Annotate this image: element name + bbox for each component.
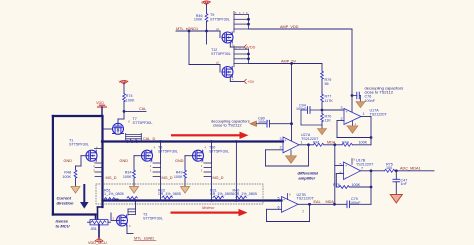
svg-text:STT5PF30L: STT5PF30L [209,150,229,154]
svg-text:100K: 100K [126,98,135,102]
wire T1 gate [81,155,86,157]
svg-text:2: 2 [280,146,282,150]
power symbol VDD above R46 [203,1,211,5]
ground [356,102,365,108]
op-amp U17B [344,162,361,180]
svg-text:p2: p2 [216,61,219,65]
capacitor C47 [395,171,397,180]
svg-text:1_1%_0805: 1_1%_0805 [104,192,124,196]
svg-text:VDD_MCU: VDD_MCU [88,241,107,245]
svg-text:EAL: EAL [314,200,321,204]
junction T3 drain rail B [134,199,137,202]
wire output [298,203,347,205]
svg-text:CR_1%_0805: CR_1%_0805 [158,192,181,196]
svg-text:TS21220T: TS21220T [356,162,374,166]
junction U27A output [307,143,310,146]
T7 pin ladder [126,133,142,141]
wire rail B [103,199,282,201]
op-amp U17A [344,109,361,125]
arrow current path top [171,132,249,139]
svg-text:7: 7 [361,167,363,171]
dashed box [96,184,263,204]
junction gate node [188,30,191,33]
svg-text:STT5PF30L: STT5PF30L [143,217,163,221]
ground [390,195,402,203]
wire gate net [176,30,220,32]
svg-text:5: 5 [278,197,280,201]
svg-text:100nF: 100nF [258,120,269,124]
svg-text:VDD: VDD [96,101,104,105]
ground [129,187,138,194]
wire - input [336,173,343,175]
wire to U17B+ [370,138,372,145]
junction CAL node [123,110,126,113]
junction MDA node [333,143,336,146]
svg-text:MTL_sGND: MTL_sGND [134,236,154,240]
svg-text:STT5PF30L: STT5PF30L [69,143,89,147]
svg-text:GND: GND [175,159,184,163]
svg-text:MG_D: MG_D [213,176,224,180]
svg-text:117K: 117K [325,99,334,103]
wire T3 gate [111,220,117,222]
resistor R34 [133,170,136,178]
svg-text:TS21220T: TS21220T [370,113,388,117]
svg-text:p2: p2 [216,27,219,31]
svg-text:100K: 100K [194,18,203,22]
transistor T12 [222,67,233,78]
svg-text:10R_1%_0805: 10R_1%_0805 [233,192,257,196]
junction T7 pins on rail [126,140,129,143]
wire output [299,144,313,146]
svg-text:1: 1 [363,112,365,116]
junction divider node [321,109,324,112]
svg-text:+: + [283,198,285,202]
junction T10 source rail B [210,199,213,202]
wire sense drop [235,142,237,201]
ground U17A V- [352,121,354,126]
svg-text:56: 56 [325,82,329,86]
power arrow left [250,121,257,126]
junction ADC output node [395,169,398,172]
junction C79 tap [333,203,336,206]
svg-text:Moteur: Moteur [202,205,215,210]
transistor T9 [222,32,233,43]
wire output [361,116,371,118]
svg-text:3: 3 [341,106,343,110]
svg-text:STT5PF30L: STT5PF30L [211,52,231,56]
svg-text:11K: 11K [325,119,332,123]
junction T8 drain on rail [159,140,162,143]
wire T10 gate [185,155,193,157]
svg-text:+: + [345,164,347,168]
junction U17A feedback [370,136,373,139]
wire to VDD_MCU [98,225,100,237]
junction R76 feedback node [370,186,373,189]
svg-text:to MCU: to MCU [56,223,70,228]
wire AMP_5V rail [249,63,323,65]
svg-text:VDD: VDD [119,80,127,84]
svg-text:+: + [346,110,348,114]
power symbol VDD main [98,105,107,107]
junction U27B output [308,203,311,206]
wire bus top [53,115,102,117]
T8 pin ladder [153,163,161,177]
svg-text:100nF: 100nF [365,99,376,103]
svg-text:AMP_VDD: AMP_VDD [280,25,299,29]
wire R46 to gate node [206,22,208,32]
ground V- [290,150,292,156]
svg-text:VDD: VDD [201,1,209,5]
svg-text:close to TS2112: close to TS2112 [365,89,394,94]
wire VDD stem [101,107,103,116]
wire U27A supply drop [291,64,293,141]
resistor R48 [75,166,77,170]
junction U17B output [370,169,373,172]
svg-text:JB1: JB1 [91,227,97,231]
svg-text:MDA: MDA [326,200,335,204]
power symbol VDD (cal) [120,80,128,84]
resistor R46 [205,14,208,22]
svg-text:CR_1%_0805: CR_1%_0805 [210,192,233,196]
svg-text:AMP_5V: AMP_5V [281,59,296,63]
svg-text:MG_D: MG_D [106,176,117,180]
jumper JB1 [90,220,108,225]
resistor R74 [123,94,126,102]
resistor R79 [321,71,324,79]
svg-text:STT5PF30L: STT5PF30L [133,121,153,125]
wire feedback [370,117,372,138]
capacitor C80 [257,123,268,125]
op-amp U27A [283,137,299,153]
svg-text:MG_D: MG_D [162,176,173,180]
wire T12 gate [188,31,190,65]
svg-text:GND: GND [120,159,129,163]
T10 pin ladder [204,163,212,177]
svg-text:1nF: 1nF [401,182,408,186]
wire R79 to R77 [321,79,323,94]
svg-text:direction: direction [57,201,74,206]
svg-text:CAL_D: CAL_D [143,137,155,141]
transistor T3 [117,215,128,226]
wire R70 to ground [321,122,323,129]
wire AMP_VDD rail [249,28,353,30]
wire T9 source to VDD port [229,43,231,47]
wire T12 source to +5V port [229,78,231,82]
svg-text:TS21220T: TS21220T [297,197,315,201]
junction sense tap rail B [235,199,238,202]
junction T9 drain pins [247,18,250,21]
svg-text:100K: 100K [352,183,361,187]
svg-text:STT5PF30L: STT5PF30L [158,150,178,154]
wire divider to U17A+ [322,109,344,111]
wire bus bottom [53,213,96,215]
svg-text:3: 3 [280,137,282,141]
wire bus VDD drop [101,116,103,207]
svg-text:100K: 100K [62,175,71,179]
svg-text:G: G [128,120,130,124]
svg-text:100K: 100K [359,140,368,144]
junction R46 node [205,30,208,33]
capacitor C76 [351,94,354,97]
svg-text:100nF: 100nF [296,107,307,111]
wire feedback loop [308,145,310,166]
wire rail A [102,140,283,142]
svg-text:MTL_sGND1: MTL_sGND1 [176,27,198,31]
svg-text:1: 1 [301,140,303,144]
wire output [361,170,385,172]
wire T8 gate [134,155,142,157]
resistor R70 [321,114,324,122]
svg-text:7: 7 [302,210,304,214]
svg-text:STT5PF30L: STT5PF30L [210,17,230,21]
current direction arrow [80,184,89,209]
svg-text:100K: 100K [123,175,132,179]
svg-text:close to TS2112: close to TS2112 [213,122,242,127]
wire divider node [321,102,323,114]
resistor R77 [321,94,324,102]
wire bus left vertical [52,116,54,215]
op-amp U27B [282,197,299,213]
ground [317,129,326,135]
svg-text:CAL: CAL [139,107,146,111]
svg-text:6: 6 [278,205,280,209]
junction T10 drain on rail [210,140,213,143]
ground [180,187,189,194]
junction C80 tap [290,122,293,125]
svg-text:GND: GND [64,159,73,163]
svg-text:+5V: +5V [247,80,254,84]
junction T12 drain pins [247,53,250,56]
svg-text:100K: 100K [174,175,183,179]
svg-text:R76: R76 [333,183,340,187]
svg-text:ADC_MDA1: ADC_MDA1 [400,167,421,171]
junction AMP_5V tap [290,62,293,65]
svg-text:5: 5 [340,162,342,166]
wire feedback loop [309,204,311,221]
wire VDD to R46 [206,5,208,14]
transistor T7 [113,123,124,134]
ground [71,187,80,194]
svg-text:amplifier: amplifier [299,175,316,180]
wire output net vertical [370,171,372,205]
junction sense tap rail A [235,140,238,143]
svg-text:+: + [285,139,287,143]
arrow current path bottom [171,209,248,216]
resistor R49 [184,170,187,178]
